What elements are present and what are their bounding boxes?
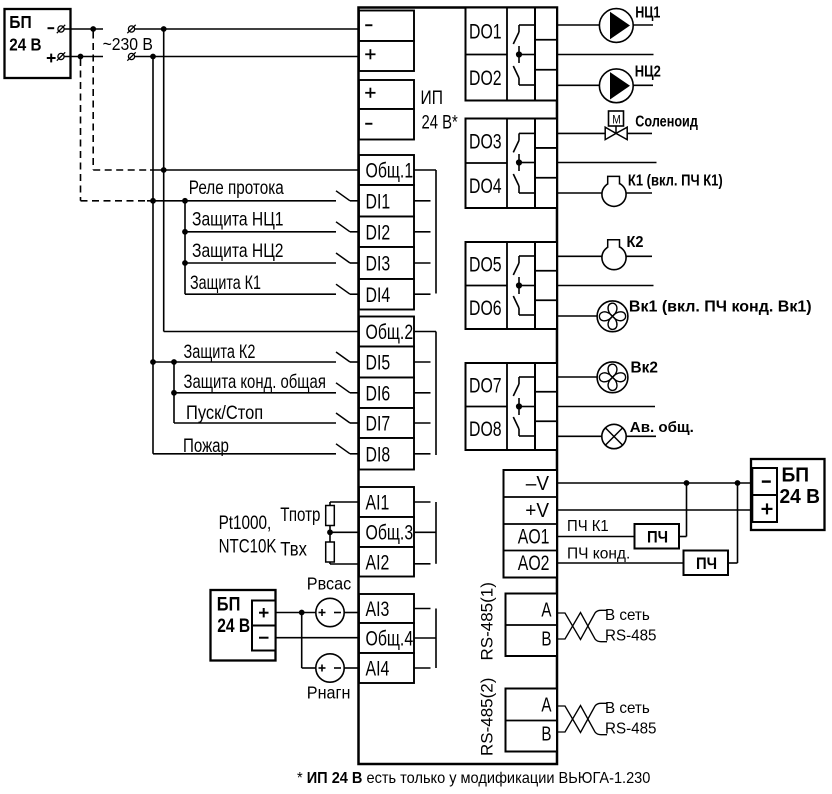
svg-text:DI4: DI4 <box>366 283 391 307</box>
svg-text:М: М <box>612 114 621 127</box>
terminal DI4 (y279) <box>359 279 414 310</box>
svg-text:ПЧ: ПЧ <box>696 555 717 573</box>
svg-text:~230 В: ~230 В <box>103 34 153 54</box>
pump НЦ1 <box>599 9 633 43</box>
svg-text:ПЧ: ПЧ <box>647 529 668 547</box>
svg-text:DO7: DO7 <box>469 373 502 397</box>
svg-text:RS-485(1): RS-485(1) <box>478 582 497 660</box>
svg-text:B: B <box>541 627 551 650</box>
relay contacts DO3/DO4 <box>519 132 535 134</box>
wire Защита НЦ1 → DI2 <box>185 231 336 233</box>
DO1/DO2 group box <box>466 8 536 101</box>
vertical bus x164 (common) <box>163 29 165 332</box>
svg-text:AI1: AI1 <box>366 490 390 514</box>
terminal + (y80) <box>359 80 414 109</box>
svg-text:24 В: 24 В <box>780 486 821 508</box>
terminal DI5 (y346) <box>359 347 414 378</box>
vertical branch DI6-DI7 <box>173 362 175 423</box>
svg-text:ПЧ конд.: ПЧ конд. <box>567 546 630 563</box>
twisted pair B (2) <box>557 706 607 735</box>
terminal - (y109) <box>359 109 414 140</box>
wire AO2 to ПЧ <box>557 562 684 564</box>
svg-text:Ав. общ.: Ав. общ. <box>630 419 694 436</box>
БП right terminal - <box>752 468 777 495</box>
svg-text:DO5: DO5 <box>469 252 502 276</box>
svg-text:Защита НЦ2: Защита НЦ2 <box>192 239 284 261</box>
vertical branch DI2-DI4 <box>184 201 186 294</box>
fan Вк1 <box>597 301 628 332</box>
relay contacts DO7/DO8 <box>519 376 535 378</box>
svg-text:К1 (вкл. ПЧ К1): К1 (вкл. ПЧ К1) <box>628 173 723 190</box>
solenoid valve <box>609 111 624 126</box>
svg-text:DO1: DO1 <box>469 19 502 43</box>
dashed wire БП+ to DI1 <box>81 200 148 202</box>
terminal DI3 (y247) <box>359 247 414 279</box>
junction on БП- wire <box>90 26 96 32</box>
junction mains - <box>161 26 167 32</box>
terminal DI2 (y216) <box>359 217 414 248</box>
svg-text:Общ.3: Общ.3 <box>366 520 414 544</box>
svg-text:БП: БП <box>782 464 810 486</box>
БП bottom terminal - <box>252 626 276 651</box>
terminal DI8 (y438) <box>359 438 414 470</box>
wire БП+ out <box>64 56 103 58</box>
svg-text:DO8: DO8 <box>469 417 502 441</box>
dashed wire БП+ down <box>80 59 82 201</box>
wire Защита К2 → DI5 <box>153 361 336 363</box>
wire DO4 to К1 <box>557 192 602 194</box>
wire to Общ.1 <box>150 169 359 171</box>
RS-485(1) port box <box>506 594 558 657</box>
svg-text:DI1: DI1 <box>366 189 391 213</box>
DO3/DO4 group box <box>466 119 536 209</box>
svg-text:DI6: DI6 <box>366 381 391 405</box>
wire DO7/8 common <box>557 406 655 408</box>
svg-text:NTC10K: NTC10K <box>219 534 277 556</box>
svg-text:DO2: DO2 <box>469 66 502 90</box>
wire after solenoid <box>627 132 652 134</box>
wire Рнагн to AI4 <box>344 667 358 669</box>
svg-text:Реле протока: Реле протока <box>189 176 284 198</box>
twisted pair B (1) <box>557 613 607 642</box>
relay contacts DO1/DO2 <box>519 24 535 26</box>
svg-text:К2: К2 <box>627 234 644 251</box>
wire mains - to controller <box>135 28 359 30</box>
svg-text:24 В: 24 В <box>9 36 41 55</box>
mains terminal circle L <box>128 26 134 32</box>
terminal AI1 (y487) <box>359 487 414 517</box>
wire DO3/4 common <box>557 162 657 164</box>
internal common bus DI1-DI4 <box>414 169 436 171</box>
svg-text:DI8: DI8 <box>366 442 391 466</box>
wire DO2 to pump НЦ2 <box>557 84 599 86</box>
terminal + (y41) <box>359 41 414 71</box>
svg-text:A: A <box>541 598 551 621</box>
junction on БП+ wire <box>78 54 84 60</box>
DO3/4 strip cell lines <box>535 147 557 149</box>
svg-text:AI3: AI3 <box>366 597 390 621</box>
svg-text:Общ.4: Общ.4 <box>366 626 414 650</box>
svg-text:БП: БП <box>217 593 241 615</box>
svg-text:AI4: AI4 <box>366 656 390 680</box>
wire Реле протока → DI1 <box>147 200 336 202</box>
svg-text:RS-485(2): RS-485(2) <box>478 678 497 756</box>
frequency drive ПЧ (К1) <box>635 524 680 549</box>
БП bottom terminal + <box>252 601 276 626</box>
wire after К2 <box>626 255 652 257</box>
DO1/2 strip cell lines <box>535 39 557 41</box>
svg-text:B: B <box>541 722 551 745</box>
RS-485(2) port box <box>506 689 558 752</box>
svg-text:Общ.1: Общ.1 <box>366 158 414 182</box>
svg-text:AO2: AO2 <box>518 551 550 575</box>
terminal Общ.1 (y155) <box>359 155 414 185</box>
svg-text:AI2: AI2 <box>366 550 390 574</box>
wire mains + to controller <box>135 56 359 58</box>
junction DI4 branch <box>182 260 188 266</box>
svg-text:Вк2: Вк2 <box>631 360 658 377</box>
terminal AI2 (y547) <box>359 547 414 577</box>
svg-text:Пожар: Пожар <box>183 434 229 456</box>
svg-text:Pt1000,: Pt1000, <box>219 511 272 533</box>
wire Общ.3 <box>330 531 359 533</box>
svg-text:* ИП 24 В есть только у модифи: * ИП 24 В есть только у модификации ВЬЮГ… <box>297 770 650 788</box>
dashed wire БП- to Общ.1 <box>93 169 150 171</box>
svg-text:Рвсас: Рвсас <box>307 574 352 594</box>
twisted pair A (1) <box>557 610 607 639</box>
БП plus sign <box>47 57 56 59</box>
wire Рвсас to AI3 <box>344 612 358 614</box>
wire БП+ to Рвсас <box>276 612 316 614</box>
resistor Тпотр <box>326 506 335 526</box>
contactor К1 <box>602 182 626 206</box>
AO terminal block <box>504 470 558 578</box>
DO7/DO8 group box <box>466 363 536 450</box>
junction Общ.1 <box>161 167 167 173</box>
power supply БП 24 В (top-left) box <box>5 9 71 78</box>
wire DO1/2 common <box>557 54 654 56</box>
terminal DI1 (y185) <box>359 185 414 217</box>
junction resistors/Общ.3 <box>327 529 333 535</box>
svg-text:AO1: AO1 <box>518 524 550 548</box>
alarm lamp Ав. общ. <box>602 424 626 448</box>
БП right terminal + <box>752 495 777 522</box>
svg-text:+V: +V <box>525 499 549 522</box>
wire ПЧ1 return <box>679 536 687 538</box>
svg-text:DI7: DI7 <box>366 411 391 435</box>
wire +V <box>557 509 753 511</box>
wire БП- out <box>64 28 103 30</box>
vertical wire to Рнагн <box>301 613 303 669</box>
terminal Общ.3 (y517) <box>359 517 414 547</box>
junction mains + <box>150 54 156 60</box>
svg-text:Тпотр: Тпотр <box>280 503 320 525</box>
pressure sensor Рнагн <box>316 654 344 682</box>
internal common bus AI1-AI2 <box>414 531 436 533</box>
svg-text:Общ.2: Общ.2 <box>366 320 414 344</box>
terminal Общ.2 (y316) <box>359 317 414 347</box>
wire to Общ.2 <box>164 331 359 333</box>
terminal Общ.4 (y623) <box>359 623 414 653</box>
junction -V/ПЧ2 <box>735 480 741 486</box>
wire DO7 to fan Вк2 <box>557 376 597 378</box>
wire Пуск/Стоп → DI7 <box>174 422 336 424</box>
wire DO5 to К2 <box>557 255 602 257</box>
junction DI1 feed <box>150 198 156 204</box>
DO5/DO6 group box <box>466 242 536 329</box>
svg-text:БП: БП <box>9 12 31 32</box>
resistor lead <box>329 526 331 543</box>
svg-text:24 В*: 24 В* <box>422 112 459 133</box>
junction -V/ПЧ1 <box>684 480 690 486</box>
svg-text:ИП: ИП <box>421 87 443 109</box>
terminal AI3 (y594) <box>359 594 414 623</box>
junction DI2 branch <box>182 198 188 204</box>
controller main block outline <box>359 8 558 765</box>
wire DO3 to solenoid <box>557 132 605 134</box>
svg-text:НЦ2: НЦ2 <box>635 63 661 80</box>
wire Защита К1 → DI4 <box>185 293 336 295</box>
terminal DI7 (y408) <box>359 408 414 438</box>
svg-text:DO6: DO6 <box>469 296 502 320</box>
pressure sensor Рвсас <box>316 598 344 626</box>
svg-text:Соленоид: Соленоид <box>635 113 698 131</box>
wire DO5/6 common <box>557 285 654 287</box>
svg-text:В сеть: В сеть <box>605 700 650 717</box>
svg-text:DI5: DI5 <box>366 350 391 374</box>
svg-text:Защита К1: Защита К1 <box>190 271 261 294</box>
svg-text:Твх: Твх <box>280 538 307 560</box>
power supply БП 24 В (right) box <box>751 459 825 530</box>
svg-text:Защита К2: Защита К2 <box>184 340 256 363</box>
twisted pair A (2) <box>557 703 607 732</box>
wire БП- to Общ.4 <box>276 637 359 639</box>
DO7/8 strip cell lines <box>535 391 557 393</box>
svg-text:Рнагн: Рнагн <box>307 683 351 703</box>
svg-text:Пуск/Стоп: Пуск/Стоп <box>186 402 263 424</box>
junction DI5 feed <box>150 359 156 365</box>
wire after НЦ1 <box>633 24 653 26</box>
terminal AI4 (y653) <box>359 653 414 683</box>
wire -V <box>557 482 753 484</box>
dashed wire БП- down <box>92 32 94 171</box>
svg-text:24 В: 24 В <box>217 614 250 636</box>
resistor Твх <box>326 542 335 562</box>
svg-text:A: A <box>541 693 551 716</box>
wire DO1 to pump НЦ1 <box>557 24 599 26</box>
power supply БП 24 В (bottom) box <box>211 590 276 661</box>
svg-text:Вк1 (вкл. ПЧ конд. Вк1): Вк1 (вкл. ПЧ конд. Вк1) <box>629 299 812 316</box>
terminal - (y10) <box>359 11 414 42</box>
svg-text:НЦ1: НЦ1 <box>635 3 660 20</box>
wire DO6 to fan Вк1 <box>557 315 597 317</box>
junction DI7 branch <box>171 390 177 396</box>
junction sensors supply <box>299 610 305 616</box>
svg-text:RS-485: RS-485 <box>605 720 657 737</box>
svg-text:ПЧ К1: ПЧ К1 <box>567 518 609 535</box>
wire Пожар → DI8 <box>153 453 336 455</box>
БП terminal circle - <box>58 26 64 32</box>
wire AI1 to resistor <box>330 501 359 503</box>
frequency drive ПЧ (конд.) <box>684 551 729 576</box>
wire ПЧ2 return <box>728 562 738 564</box>
junction DI3 branch <box>182 229 188 235</box>
БП terminal circle + <box>58 53 64 59</box>
svg-text:DO3: DO3 <box>469 129 502 153</box>
БП minus sign <box>48 27 55 29</box>
svg-text:Защита НЦ1: Защита НЦ1 <box>192 208 284 230</box>
vertical bus x153 (DI supply) <box>152 57 154 454</box>
pump НЦ2 <box>599 69 633 103</box>
wire AO1 to ПЧ <box>557 536 635 538</box>
svg-text:DI3: DI3 <box>366 251 391 275</box>
wire to Рнагн <box>302 667 316 669</box>
svg-text:DI2: DI2 <box>366 220 391 244</box>
terminal DI6 (y377) <box>359 378 414 409</box>
wire Защита НЦ2 → DI3 <box>185 262 336 264</box>
wire after К1 <box>626 192 652 194</box>
mains terminal circle N <box>128 53 134 59</box>
svg-text:–V: –V <box>526 472 549 495</box>
wire DO8 to lamp <box>557 435 602 437</box>
fan Вк2 <box>597 362 628 393</box>
svg-text:RS-485: RS-485 <box>605 627 657 644</box>
wire resistor to AI2 <box>329 562 331 564</box>
svg-text:DO4: DO4 <box>469 174 502 198</box>
internal common bus DI5-DI8 <box>414 331 436 333</box>
wire Защита конд. общая → DI6 <box>174 392 336 394</box>
wire after lamp <box>626 435 656 437</box>
svg-text:Защита конд. общая: Защита конд. общая <box>184 370 326 393</box>
junction DI6 branch <box>171 359 177 365</box>
DO5/6 strip cell lines <box>535 270 557 272</box>
contactor К2 <box>602 246 626 270</box>
relay contacts DO5/DO6 <box>519 255 535 257</box>
internal common bus AI3-AI4 <box>414 637 436 639</box>
svg-text:В сеть: В сеть <box>605 607 650 624</box>
wire after НЦ2 <box>633 84 653 86</box>
